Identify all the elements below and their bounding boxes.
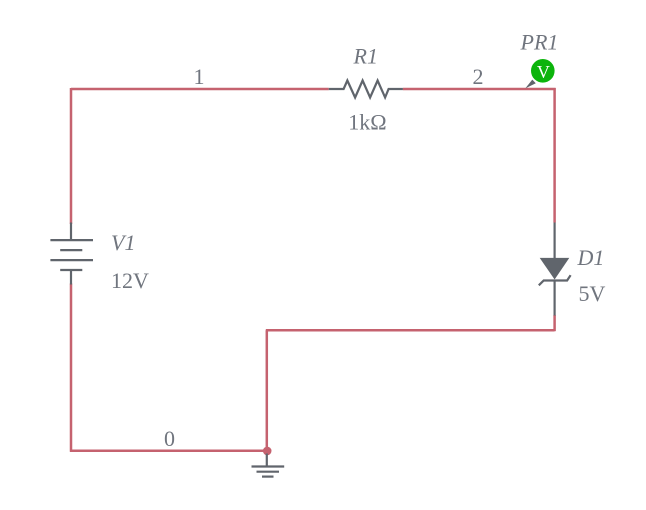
svg-text:5V: 5V: [579, 281, 606, 306]
battery V1: [50, 223, 93, 285]
svg-text:PR1: PR1: [520, 30, 559, 55]
wire: right vertical upper: [553, 88, 556, 223]
svg-text:V: V: [537, 62, 550, 82]
svg-text:D1: D1: [577, 245, 605, 270]
svg-text:1kΩ: 1kΩ: [348, 110, 386, 135]
ground: [252, 454, 285, 477]
wire: left vertical upper: [70, 88, 73, 224]
junction dot node 0: [263, 447, 272, 456]
zener diode D1: [539, 223, 571, 316]
wire: top-left horizontal (node 1): [71, 88, 329, 91]
probe PR1: [525, 59, 554, 88]
wire: left vertical lower: [70, 284, 73, 452]
wire: middle vertical riser: [266, 330, 269, 451]
svg-text:12V: 12V: [111, 268, 149, 293]
svg-text:0: 0: [164, 426, 175, 451]
svg-text:R1: R1: [353, 44, 378, 69]
wire: top-right horizontal (node 2): [403, 88, 556, 91]
wire: middle horizontal: [266, 329, 555, 332]
resistor R1: [329, 81, 403, 98]
wire: right vertical lower: [553, 315, 556, 331]
wire: bottom horizontal (node 0): [70, 450, 267, 453]
svg-text:2: 2: [473, 64, 484, 89]
svg-text:V1: V1: [111, 230, 135, 255]
svg-text:1: 1: [194, 64, 205, 89]
